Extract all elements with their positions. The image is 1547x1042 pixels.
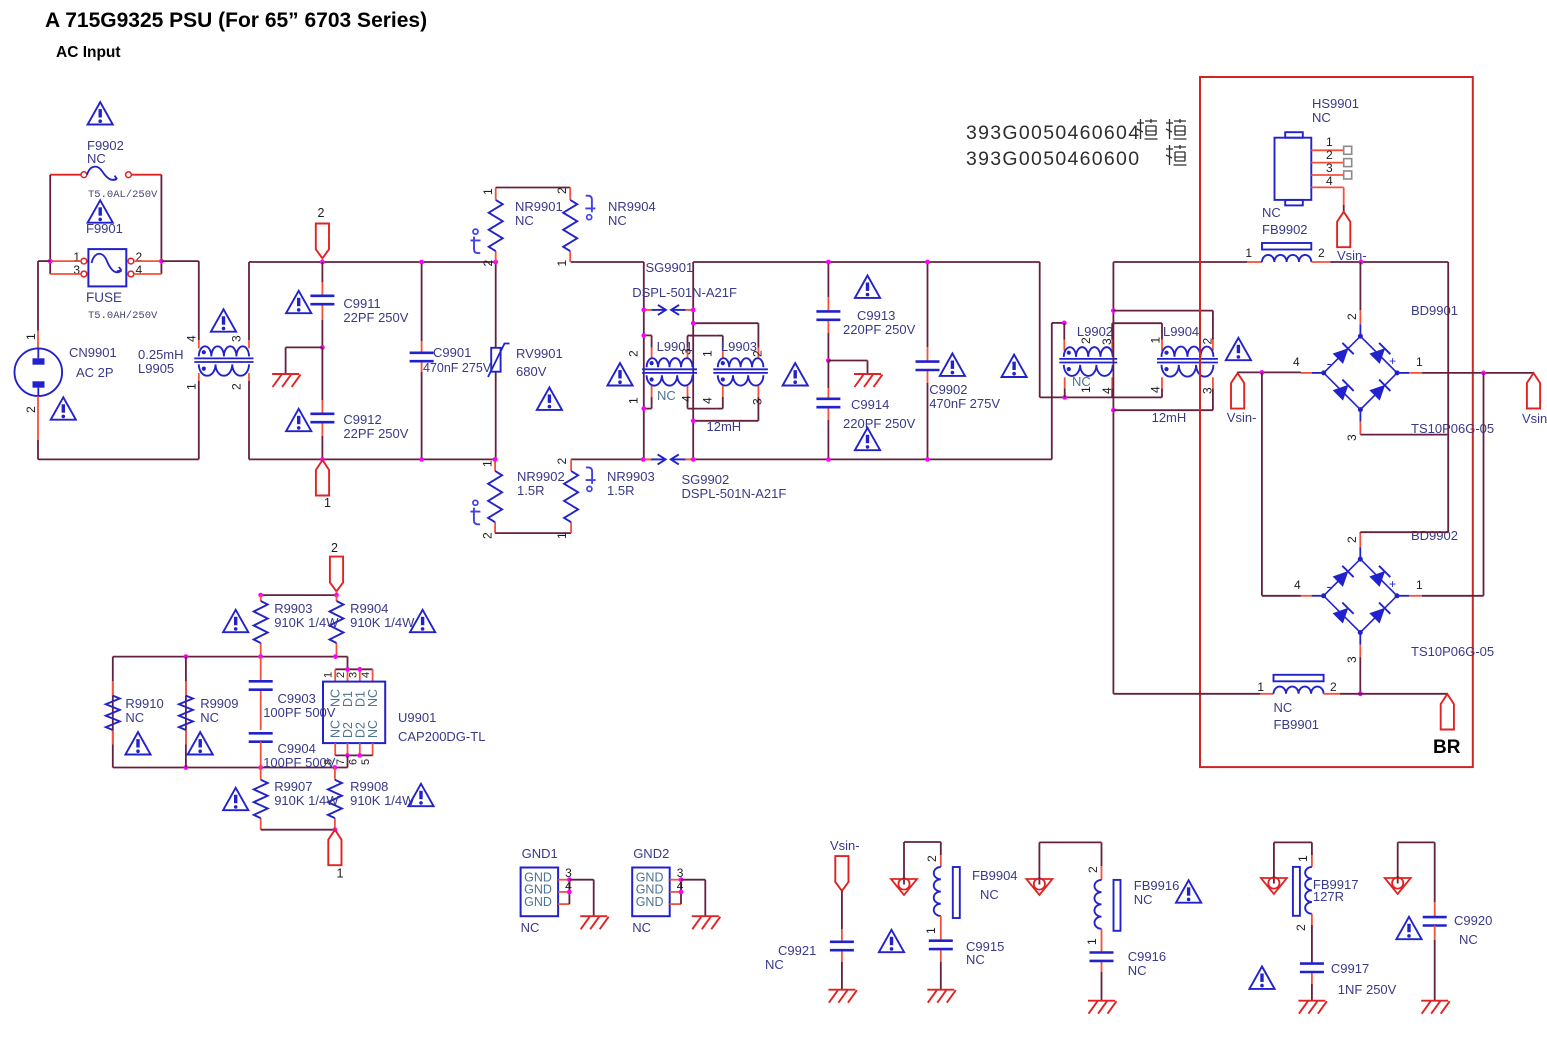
svg-text:1.5R: 1.5R (607, 483, 634, 498)
svg-text:2: 2 (1294, 924, 1308, 931)
svg-text:R9904: R9904 (350, 601, 388, 616)
connector CN9901 (15, 348, 63, 396)
resistor R9907 leads (260, 768, 262, 780)
svg-text:NC: NC (521, 920, 540, 935)
svg-text:NC: NC (1134, 892, 1153, 907)
wire R9903 R9904 top (261, 594, 337, 596)
capacitor C9903 leads (260, 657, 262, 682)
wire L9904 pin1 wire (1112, 322, 1162, 324)
svg-text:1: 1 (1416, 355, 1423, 369)
wire top bus segment C (693, 261, 1039, 263)
wire L9901 pin3 (688, 335, 694, 337)
capacitor C9917 leads (1311, 914, 1313, 925)
svg-text:GND: GND (636, 895, 664, 909)
svg-text:R9907: R9907 (274, 779, 312, 794)
warning triangle above F9902 (88, 102, 113, 124)
wire FB9916 top (1038, 842, 1040, 879)
svg-text:1: 1 (337, 867, 344, 881)
wire L9903 bottom bracket (757, 386, 759, 397)
svg-text:0.25mH: 0.25mH (138, 347, 184, 362)
resistor R9903 (254, 601, 268, 643)
svg-text:470nF 275V: 470nF 275V (929, 396, 1000, 411)
capacitor C9901 leads (421, 262, 423, 341)
junction dot C9913 mid (826, 358, 831, 363)
svg-text:R9909: R9909 (200, 696, 238, 711)
svg-text:BD9902: BD9902 (1411, 528, 1458, 543)
svg-text:1: 1 (1296, 855, 1310, 862)
svg-text:4: 4 (701, 397, 715, 404)
wire L9901 pin4 (687, 386, 689, 397)
inductor L9905 (199, 346, 249, 356)
svg-text:393G0050460600: 393G0050460600 (966, 148, 1140, 170)
svg-text:NC: NC (980, 887, 999, 902)
warning triangle right of C9902 (940, 354, 965, 376)
junction dot NR9902 top (493, 457, 498, 462)
svg-text:SG9901: SG9901 (646, 260, 694, 275)
capacitor C9916 leads (1101, 929, 1103, 953)
svg-text:C9917: C9917 (1331, 961, 1369, 976)
junction dot port1 mid (333, 827, 338, 832)
junction dots GND1 (567, 877, 572, 882)
svg-text:2: 2 (627, 350, 641, 357)
svg-text:RV9901: RV9901 (516, 346, 563, 361)
capacitor C9914 leads (827, 361, 829, 389)
svg-text:127R: 127R (1313, 889, 1344, 904)
spark gap SG9902 (643, 458, 652, 460)
svg-text:F9901: F9901 (86, 221, 123, 236)
wire Vsin- arrow to BD9901 (1238, 371, 1262, 373)
resistor R9908 leads (334, 768, 336, 780)
svg-text:12mH: 12mH (1152, 410, 1187, 425)
svg-text:2: 2 (1345, 536, 1359, 543)
wire FB9901 right stub (1324, 693, 1340, 695)
svg-text:22PF 250V: 22PF 250V (343, 426, 408, 441)
svg-text:CAP200DG-TL: CAP200DG-TL (398, 729, 485, 744)
junction dot BD9902 pin3 (1358, 691, 1363, 696)
wire BD9901 pin3 down (1360, 434, 1447, 436)
junction dot BD9901 pin1 (1481, 371, 1486, 376)
svg-text:C9903: C9903 (278, 691, 316, 706)
capacitor C9920 leads (1434, 926, 1436, 941)
capacitor C9920 (1423, 916, 1447, 919)
wire from F9902 right (132, 174, 162, 176)
inductor L9902 (1064, 347, 1113, 357)
svg-text:910K 1/4W: 910K 1/4W (350, 615, 415, 630)
capacitor C9911 (310, 294, 334, 297)
junction dots SG9901 (641, 308, 646, 313)
junction dot 1113 b (1111, 408, 1116, 413)
svg-text:CN9901: CN9901 (69, 345, 117, 360)
port Vsin far right (1527, 373, 1540, 409)
wire BD9902 pin3 down (1359, 657, 1361, 694)
svg-text:680V: 680V (516, 364, 547, 379)
wire L9901-L9903 mid links (688, 335, 717, 337)
svg-text:12mH: 12mH (707, 419, 742, 434)
svg-text:100PF 500V: 100PF 500V (263, 705, 336, 720)
capacitor C9904 (249, 732, 273, 735)
svg-text:FB9902: FB9902 (1262, 222, 1308, 237)
capacitor C9902 leads (927, 262, 929, 347)
capacitor C9913 (816, 310, 840, 313)
warning triangle C9920 (1396, 917, 1421, 939)
capacitor C9901 (410, 351, 434, 354)
NTC symbol NR9901 (473, 229, 478, 234)
wire FB9917 top (1273, 842, 1275, 878)
junction dots C9901 (419, 260, 424, 265)
svg-text:Vsin-: Vsin- (830, 838, 860, 853)
svg-text:4: 4 (1149, 386, 1163, 393)
warning triangle C9917 (1249, 967, 1274, 989)
junction dot fuse left (48, 259, 53, 264)
svg-text:4: 4 (185, 335, 199, 342)
svg-text:NC: NC (632, 920, 651, 935)
svg-text:2: 2 (481, 532, 495, 539)
svg-text:C9901: C9901 (433, 345, 471, 360)
svg-text:22PF 250V: 22PF 250V (343, 310, 408, 325)
svg-text:R9903: R9903 (274, 601, 312, 616)
junction dot R9903 top (258, 593, 263, 598)
NTC hook symbol NR9903 (587, 486, 592, 491)
port 1 arrow mid (328, 830, 341, 866)
capacitor C9921 leads (841, 891, 843, 929)
ground symbol C9915 (927, 990, 956, 1003)
inductor L9904 (1162, 347, 1214, 357)
wire BD9901 pin2 up (1359, 262, 1361, 310)
wire U9901 top pin rail (335, 668, 372, 670)
capacitor C9911 leads (321, 262, 323, 282)
svg-text:220PF 250V: 220PF 250V (843, 322, 916, 337)
svg-text:3: 3 (1326, 161, 1333, 175)
svg-text:T5.0AH/250V: T5.0AH/250V (88, 310, 158, 322)
svg-text:NC: NC (608, 213, 627, 228)
svg-text:2: 2 (751, 350, 765, 357)
svg-text:C9902: C9902 (929, 382, 967, 397)
connector GND1 (521, 868, 559, 917)
svg-text:NC: NC (657, 388, 676, 403)
svg-text:FB9901: FB9901 (1274, 717, 1320, 732)
svg-text:2: 2 (1345, 313, 1359, 320)
warning triangle R9909 (188, 732, 213, 754)
wire to FB9902 (1247, 261, 1262, 263)
capacitor C9913 leads (827, 262, 829, 297)
wire top bus segment D (1113, 261, 1247, 263)
wire L9905 pin4 lead (198, 261, 200, 340)
svg-text:SG9902: SG9902 (682, 472, 730, 487)
svg-text:220PF 250V: 220PF 250V (843, 416, 916, 431)
svg-text:1: 1 (1245, 246, 1252, 260)
junction dot L9903 bottom (691, 418, 696, 423)
svg-text:2: 2 (925, 855, 939, 862)
resistor NR9904 leads (569, 188, 571, 200)
connector GND2 (632, 868, 670, 917)
wire to F9902 left (50, 174, 81, 176)
svg-text:R9908: R9908 (350, 779, 388, 794)
capacitor C9917 (1300, 962, 1324, 965)
capacitor C9902 (916, 360, 940, 363)
wire bottom bus segment C (693, 458, 1052, 460)
svg-text:3: 3 (1345, 656, 1359, 663)
warning triangle right of L9903 (783, 363, 808, 385)
resistor R9909 (179, 696, 193, 730)
junction dot port2 (334, 593, 339, 598)
svg-text:2: 2 (24, 406, 38, 413)
junction dot bottom C9912 (320, 457, 325, 462)
resistor NR9902 leads (494, 459, 496, 471)
port 2 top arrow (316, 224, 329, 259)
CJK annotation glyphs (1137, 119, 1187, 165)
svg-text:100PF 500V: 100PF 500V (263, 755, 336, 770)
bridge rectifier BD9901 (1324, 336, 1397, 409)
svg-text:+: + (1389, 354, 1396, 368)
resistor R9910 (106, 696, 120, 730)
bias symbol C9920 branch (1397, 877, 1399, 884)
wire L9902 pin2 stub (1063, 323, 1065, 340)
svg-text:2: 2 (481, 260, 495, 267)
svg-text:C9911: C9911 (343, 296, 380, 311)
svg-text:NR9904: NR9904 (608, 199, 656, 214)
svg-text:NC: NC (966, 952, 985, 967)
wire U9901 bottom link (347, 755, 349, 767)
warning triangle FB9916 (1176, 880, 1201, 902)
junction dot L9902 pin1 (1062, 395, 1067, 400)
svg-text:910K 1/4W: 910K 1/4W (274, 793, 339, 808)
warning triangle F9901 (88, 200, 113, 222)
svg-text:C9904: C9904 (278, 741, 316, 756)
svg-text:+: + (1389, 577, 1396, 591)
capacitor C9904 leads (260, 742, 262, 768)
warning triangle left of L9901 (607, 363, 632, 385)
junction dots lower rail (184, 765, 189, 770)
ground symbol GND1 (580, 916, 609, 929)
svg-text:DSPL-501N-A21F: DSPL-501N-A21F (682, 486, 787, 501)
GND2 pin wires (670, 879, 681, 881)
varistor RV9901 (491, 348, 500, 372)
ground symbol C9920 (1421, 1001, 1450, 1014)
svg-text:470nF 275V: 470nF 275V (423, 361, 492, 375)
bridge rectifier BD9902 (1324, 559, 1397, 632)
svg-text:NC: NC (200, 710, 219, 725)
junction dot 1113 a (1111, 308, 1116, 313)
svg-text:L9905: L9905 (138, 361, 174, 376)
wire L9902 pin1 stub (1064, 377, 1066, 388)
capacitor C9912 leads (321, 347, 323, 400)
resistor R9903 leads (260, 595, 262, 601)
warning triangle near C9915 (879, 930, 904, 952)
junction dot top C9911 (320, 260, 325, 265)
svg-text:910K 1/4W: 910K 1/4W (350, 793, 415, 808)
svg-text:1: 1 (555, 260, 569, 267)
resistor NR9903 (564, 471, 578, 522)
port Vsin- bottom (835, 856, 848, 891)
junction dot C9913 (826, 260, 831, 265)
port BR (1441, 694, 1454, 730)
resistor R9908 (328, 780, 342, 818)
svg-text:2: 2 (1201, 338, 1215, 345)
port Vsin- left of BD9901 (1231, 373, 1244, 409)
svg-text:NC: NC (366, 720, 380, 738)
wire BD9901 pin1 right (1422, 372, 1533, 374)
svg-text:GND: GND (524, 895, 552, 909)
svg-text:1: 1 (481, 188, 495, 195)
port 2 arrow mid (330, 557, 343, 592)
svg-text:4: 4 (1100, 387, 1114, 394)
svg-text:2: 2 (331, 541, 338, 555)
wire fuse row to CN9901 (38, 260, 50, 262)
svg-text:3: 3 (680, 348, 694, 355)
svg-text:4: 4 (1293, 355, 1300, 369)
wire upper mid rail (113, 656, 348, 658)
wire fuse loop left vertical (49, 175, 51, 274)
wire top bus segment B (571, 261, 644, 263)
svg-text:AC Input: AC Input (56, 44, 121, 61)
junction dot Vsin- node (1260, 370, 1265, 375)
svg-text:NC: NC (765, 957, 784, 972)
ground symbol C9917 (1298, 1001, 1327, 1014)
svg-text:2: 2 (1330, 680, 1337, 694)
NTC hook symbol NR9904 (587, 215, 592, 220)
svg-text:4: 4 (1326, 174, 1333, 188)
wire L9901 pin2 (644, 334, 652, 336)
svg-text:393G0050460604: 393G0050460604 (966, 122, 1140, 144)
wire L9902 pin3 stub (1111, 340, 1113, 351)
ferrite bead FB9901 (1274, 687, 1324, 694)
wire NR9901 to NR9904 top (496, 187, 571, 189)
junction dots U9901 bottom (345, 753, 350, 758)
wire L9903 top bracket (693, 322, 758, 324)
resistor R9907 (254, 780, 268, 818)
svg-text:C9914: C9914 (851, 397, 889, 412)
port Vsin- HS9901 (1337, 212, 1350, 248)
ferrite bead FB9902 (1262, 255, 1311, 262)
junction dot C9914 bottom (826, 457, 831, 462)
ground symbol mid (854, 374, 883, 387)
junction dot RV bottom (493, 457, 498, 462)
resistor R9904 leads (336, 595, 338, 601)
wire BD9902 pin2 up (1359, 531, 1361, 534)
wire fuse pin1 (50, 260, 81, 262)
warning triangle CN9901 (51, 397, 76, 419)
junction dot mid C9911 (320, 345, 325, 350)
bias symbol FB9904 (903, 878, 905, 885)
svg-text:4: 4 (360, 672, 372, 678)
svg-text:Vsin: Vsin (1522, 411, 1547, 426)
junction dot Vsin- (1359, 260, 1364, 265)
svg-text:2: 2 (318, 206, 325, 220)
svg-text:2: 2 (1318, 246, 1325, 260)
svg-text:NC: NC (515, 213, 534, 228)
inductor L9901 (647, 358, 693, 367)
svg-text:1: 1 (324, 496, 331, 510)
svg-text:NC: NC (366, 689, 380, 707)
svg-text:NR9902: NR9902 (517, 469, 565, 484)
svg-text:2: 2 (1086, 866, 1100, 873)
wire Vsin- vertical (1447, 262, 1449, 532)
wire FB9904 top (903, 842, 905, 879)
wire fuse pin3 (50, 273, 81, 275)
svg-text:NC: NC (87, 151, 106, 166)
svg-text:1: 1 (555, 532, 569, 539)
warning triangle left of R9907 (223, 788, 248, 810)
svg-text:NC: NC (125, 710, 144, 725)
svg-text:FB9916: FB9916 (1134, 878, 1180, 893)
wire fuse pin2 (134, 260, 162, 262)
resistor NR9902 (488, 471, 502, 522)
NTC symbol NR9902 (473, 500, 478, 505)
wire top bus segment A (249, 261, 496, 263)
svg-text:Vsin-: Vsin- (1227, 410, 1257, 425)
wire top bus corner down (1039, 262, 1041, 397)
svg-text:1: 1 (481, 460, 495, 467)
svg-text:2: 2 (335, 672, 347, 678)
svg-text:1: 1 (924, 927, 938, 934)
svg-text:L9904: L9904 (1163, 324, 1199, 339)
svg-text:910K 1/4W: 910K 1/4W (274, 615, 339, 630)
resistor NR9901 (489, 200, 503, 251)
wire L9902 pin4 stub (1111, 377, 1113, 388)
svg-text:1: 1 (1149, 337, 1163, 344)
bridge section red box (1200, 77, 1473, 767)
wire L9903 pin4 (722, 386, 724, 397)
fuse F9901 FUSE box (88, 249, 126, 286)
svg-text:1: 1 (24, 333, 38, 340)
wire BD9902 pin4 left (1262, 595, 1301, 597)
svg-text:BR: BR (1433, 737, 1461, 758)
junction dots SG9902 (641, 457, 646, 462)
bias symbol FB9917 (1273, 877, 1275, 884)
junction dot fuse right (159, 259, 164, 264)
svg-text:L9902: L9902 (1077, 324, 1113, 339)
ic U9901 box (323, 682, 385, 744)
svg-text:4: 4 (680, 395, 694, 402)
U9901 top pin stubs (334, 669, 336, 681)
svg-text:1: 1 (1326, 135, 1333, 149)
svg-text:1: 1 (1257, 680, 1264, 694)
wire L9901 pin1 (644, 408, 652, 410)
wire x1113 corner to FB9901 (1113, 693, 1260, 695)
svg-text:2: 2 (1079, 337, 1093, 344)
warning triangle right of R9904 (410, 610, 435, 632)
wire from FB9902 (1311, 261, 1330, 263)
wire L9904 top bracket (1113, 310, 1213, 312)
svg-text:C9912: C9912 (343, 412, 381, 427)
svg-text:TS10P06G-05: TS10P06G-05 (1411, 644, 1494, 659)
wire L9903 pin1 (717, 335, 723, 337)
port 1 bottom arrow (316, 460, 329, 496)
wire lower mid rail (113, 767, 348, 769)
junction dots C9902 (925, 260, 930, 265)
svg-text:R9910: R9910 (125, 696, 163, 711)
resistor R9910 leads (112, 681, 114, 696)
wire C9920 top (1397, 842, 1399, 878)
svg-text:U9901: U9901 (398, 710, 436, 725)
capacitor C9912 (310, 412, 334, 415)
svg-text:1: 1 (701, 350, 715, 357)
wire CN9901 pin2 down (37, 396, 39, 440)
wire bottom bus corner up (1051, 323, 1053, 460)
wire fuse row to L9905 (161, 260, 198, 262)
svg-text:NC: NC (1262, 205, 1281, 220)
svg-text:GND1: GND1 (522, 846, 558, 861)
HS9901 pin squares (1344, 146, 1352, 154)
warning triangle below C9914 (855, 428, 880, 450)
svg-text:3: 3 (230, 335, 244, 342)
wire NR9902 bottom to NR9903 (495, 532, 571, 534)
svg-text:1: 1 (185, 383, 199, 390)
heatsink HS9901 (1275, 132, 1312, 205)
ground symbol GND2 (692, 916, 721, 929)
wire SG block right vertical (692, 262, 694, 459)
wire GND1 to ground (569, 879, 593, 881)
